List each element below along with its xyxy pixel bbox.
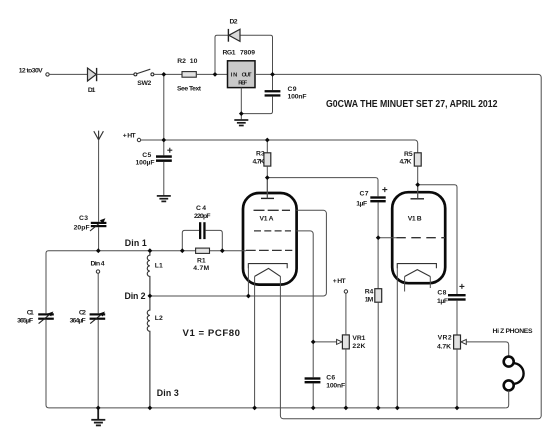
- wire REF lead: [240, 88, 242, 120]
- svg-text:22K: 22K: [352, 343, 365, 350]
- wire antenna to C3: [98, 140, 100, 222]
- wire junction down to HT rail: [163, 74, 165, 140]
- svg-text:100µF: 100µF: [136, 160, 155, 167]
- svg-text:+ HT: + HT: [333, 278, 347, 285]
- svg-text:1µF: 1µF: [356, 201, 367, 208]
- svg-text:R1: R1: [197, 257, 206, 264]
- svg-text:+ HT: + HT: [123, 133, 137, 140]
- capacitor C4: [182, 230, 199, 250]
- terminal 12to30V: [46, 73, 49, 76]
- diode D1: [88, 68, 97, 81]
- ground at bottom rail: [97, 408, 99, 420]
- ground below C5: [157, 196, 171, 202]
- regulator RG1 7809: [228, 61, 256, 88]
- svg-text:4.7K: 4.7K: [437, 343, 451, 350]
- variable capacitor C2: [90, 313, 106, 315]
- svg-text:VR2: VR2: [438, 335, 452, 342]
- variable capacitor C1: [38, 313, 54, 315]
- V1A plate: [261, 197, 274, 199]
- resistor R5: [414, 153, 421, 166]
- svg-text:12 to30V: 12 to30V: [19, 67, 43, 74]
- svg-text:R5: R5: [404, 151, 413, 158]
- wire grid V1B to junction: [378, 237, 396, 239]
- wire anode V1A to C7: [267, 178, 378, 197]
- V1A cathode lead: [247, 264, 249, 296]
- V1A grid g3 dashes: [254, 209, 291, 211]
- capacitor C8: [448, 294, 466, 296]
- antenna: [94, 131, 104, 140]
- svg-text:1µF: 1µF: [437, 298, 448, 305]
- inductor L1: [147, 251, 150, 296]
- svg-text:10: 10: [190, 58, 198, 65]
- svg-text:Din 3: Din 3: [157, 388, 179, 398]
- svg-text:C9: C9: [288, 86, 297, 93]
- svg-text:4.7K: 4.7K: [400, 159, 412, 166]
- capacitor C5: [163, 140, 165, 155]
- wire SW2 to R2: [154, 73, 182, 75]
- tube V1B: [392, 192, 445, 283]
- svg-text:C3: C3: [79, 215, 88, 222]
- wire Din1 line: [46, 251, 246, 314]
- wire VR2 wiper to phones: [466, 342, 508, 357]
- svg-text:R3: R3: [256, 151, 265, 158]
- svg-text:V1 = PCF80: V1 = PCF80: [183, 328, 241, 339]
- svg-text:364µF: 364µF: [70, 317, 86, 324]
- svg-text:20pF: 20pF: [74, 225, 90, 232]
- svg-text:IN: IN: [231, 72, 238, 78]
- resistor R3: [266, 140, 268, 153]
- VR1 arrow: [337, 339, 342, 344]
- svg-text:7809: 7809: [240, 49, 255, 56]
- svg-text:L1: L1: [155, 263, 163, 270]
- svg-text:V1 A: V1 A: [260, 216, 274, 223]
- inductor L2: [147, 296, 150, 408]
- svg-text:100nF: 100nF: [288, 94, 307, 101]
- svg-text:REF: REF: [238, 80, 247, 86]
- svg-text:OUT: OUT: [242, 72, 252, 78]
- V1A heater pin left: [254, 276, 256, 408]
- wire D2 loop: [215, 35, 273, 74]
- V1B heater bracket: [397, 264, 436, 269]
- ground below RG1: [234, 120, 248, 126]
- wire HT rail: [141, 140, 418, 153]
- wire R2 to RG1: [196, 73, 227, 75]
- V1B heater filament: [405, 270, 431, 277]
- wire phones to rail: [506, 390, 509, 408]
- wire input to D1: [49, 73, 87, 75]
- svg-text:C5: C5: [142, 152, 151, 159]
- V1A heater bracket: [248, 264, 287, 269]
- svg-text:C1: C1: [27, 310, 34, 317]
- svg-text:C6: C6: [326, 375, 335, 382]
- resistor R4: [375, 289, 382, 303]
- V1B heater stubs: [404, 277, 406, 292]
- headphones: [504, 357, 514, 367]
- V1A heater filament: [255, 268, 281, 276]
- wire OUT rail right side and heater rail: [255, 74, 541, 418]
- svg-text:SW2: SW2: [137, 80, 151, 87]
- capacitor C7: [370, 196, 385, 198]
- wire D1 to SW2: [97, 73, 134, 75]
- potentiometer VR2: [454, 335, 461, 349]
- svg-text:VR1: VR1: [352, 335, 365, 342]
- switch SW2: [134, 73, 137, 76]
- VR2 arrow: [461, 339, 466, 344]
- svg-text:365µF: 365µF: [17, 317, 33, 324]
- V1A grid g1 dashes: [246, 249, 292, 251]
- svg-text:R4: R4: [365, 289, 374, 296]
- svg-text:C8: C8: [437, 290, 446, 297]
- svg-text:L2: L2: [155, 315, 163, 322]
- diode D2: [227, 29, 229, 42]
- svg-text:4.7M: 4.7M: [193, 265, 209, 272]
- tube V1A: [243, 193, 297, 285]
- V1A grid g2 dashes: [254, 230, 291, 232]
- svg-text:1M: 1M: [365, 297, 374, 304]
- potentiometer VR1: [342, 335, 349, 349]
- wire V1B anode wrap to C8: [418, 185, 457, 294]
- svg-text:D2: D2: [230, 19, 238, 26]
- svg-text:220pF: 220pF: [194, 213, 211, 220]
- svg-text:R2: R2: [177, 58, 186, 65]
- V1B grid dashes: [396, 237, 445, 239]
- capacitor C6: [305, 377, 321, 379]
- svg-text:Din 2: Din 2: [125, 291, 146, 301]
- svg-text:4.7K: 4.7K: [253, 159, 265, 166]
- wire g3 wrap to cathode line Din2: [150, 210, 327, 296]
- capacitor C9: [272, 74, 274, 90]
- resistor R2: [182, 72, 196, 78]
- resistor R1: [196, 248, 210, 253]
- svg-text:Din 1: Din 1: [125, 238, 147, 248]
- svg-text:V1 B: V1 B: [408, 216, 422, 223]
- svg-text:Din 4: Din 4: [91, 260, 105, 267]
- svg-text:See Text: See Text: [177, 86, 202, 93]
- V1B plate: [411, 198, 425, 200]
- svg-text:RG1: RG1: [223, 49, 236, 56]
- variable capacitor C3: [91, 222, 107, 224]
- wire C1 to ground rail: [46, 320, 506, 408]
- svg-text:Hi Z PHONES: Hi Z PHONES: [493, 328, 533, 335]
- wire g2 wrap down to VR1/C6: [296, 231, 313, 377]
- svg-text:C2: C2: [79, 310, 86, 317]
- svg-text:100nF: 100nF: [326, 382, 345, 389]
- svg-text:D1: D1: [88, 87, 96, 94]
- wire VR1 wiper from g2 line: [313, 341, 337, 343]
- svg-text:G0CWA THE MINUET SET 27, APRIL: G0CWA THE MINUET SET 27, APRIL 2012: [326, 99, 498, 110]
- terminal +HT at VR1: [344, 290, 347, 293]
- V1B cathode lead: [396, 264, 398, 408]
- svg-text:C7: C7: [360, 191, 369, 198]
